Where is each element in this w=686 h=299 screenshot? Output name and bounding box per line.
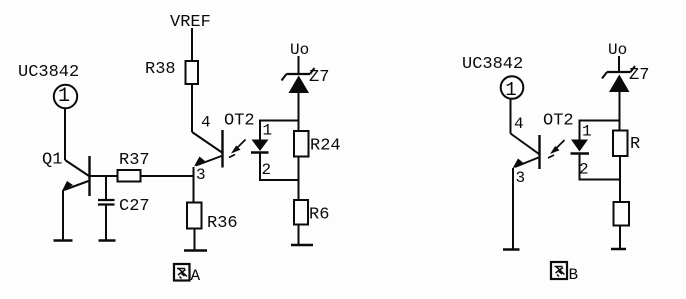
zener diode Z7 (figure B)	[602, 66, 635, 92]
svg-text:R: R	[630, 135, 640, 154]
optocoupler light arrow (figure A)	[229, 140, 246, 158]
svg-text:3: 3	[196, 166, 206, 184]
transistor Q1	[62, 156, 90, 196]
resistor R36	[187, 203, 202, 229]
ground (figure B emitter)	[503, 248, 520, 251]
svg-text:R24: R24	[310, 137, 341, 156]
wire Q1 emitter down	[62, 190, 64, 240]
svg-text:Z7: Z7	[629, 66, 649, 85]
wire LED branch top (pin1, figure A)	[260, 121, 299, 141]
optocoupler light arrow (figure B)	[548, 140, 565, 158]
svg-text:UC3842: UC3842	[462, 55, 523, 74]
wire pin1 to phototransistor (figure B)	[510, 99, 512, 134]
phototransistor of OT2 (figure A)	[192, 130, 223, 168]
svg-text:OT2: OT2	[543, 112, 574, 131]
svg-text:1: 1	[58, 85, 70, 108]
wire LED branch bottom (pin2, figure B)	[580, 155, 621, 180]
LED of OT2 (figure B)	[571, 140, 590, 154]
pin circle 1 (UC3842 pin, figure B)	[501, 76, 524, 101]
zener diode Z7 (figure A)	[282, 68, 315, 93]
wire zener to R (figure B)	[619, 92, 621, 131]
svg-text:3: 3	[516, 169, 526, 187]
svg-text:A: A	[191, 267, 201, 285]
svg-text:B: B	[569, 266, 579, 284]
wire emitter to ground (figure B)	[512, 168, 514, 249]
wire Uo to zener	[298, 56, 300, 74]
caption 图A	[174, 264, 201, 285]
svg-text:R37: R37	[119, 151, 150, 170]
svg-text:4: 4	[514, 115, 524, 133]
wire R24 to R6	[298, 157, 300, 201]
svg-text:1: 1	[582, 123, 592, 141]
wire R38 to phototransistor collector (pin 4)	[191, 84, 193, 132]
svg-text:C27: C27	[119, 197, 150, 216]
wire LED branch top (pin1, figure B)	[580, 121, 621, 141]
ground (figure B right)	[611, 248, 626, 251]
resistor R24	[294, 131, 309, 157]
wire VREF to R38	[191, 28, 193, 61]
svg-text:Q1: Q1	[42, 151, 62, 170]
wire lower resistor to ground (figure B)	[619, 226, 621, 249]
resistor R6	[294, 200, 308, 225]
svg-text:2: 2	[262, 161, 272, 179]
svg-text:1: 1	[505, 79, 516, 101]
wire R6 to ground	[298, 225, 300, 245]
ground (C27)	[99, 239, 116, 242]
svg-text:1: 1	[263, 122, 273, 140]
resistor R38	[186, 61, 199, 84]
svg-text:Uo: Uo	[608, 41, 627, 59]
wire pin1 to Q1 collector	[64, 108, 66, 160]
phototransistor of OT2 (figure B)	[511, 134, 540, 170]
ground (Q1 emitter)	[54, 239, 73, 242]
svg-text:R6: R6	[309, 206, 329, 225]
svg-text:R38: R38	[145, 60, 176, 79]
ground (R6)	[291, 244, 313, 247]
svg-text:OT2: OT2	[224, 112, 255, 131]
svg-text:UC3842: UC3842	[18, 63, 79, 82]
svg-text:R36: R36	[207, 214, 238, 233]
svg-text:Z7: Z7	[309, 68, 329, 87]
svg-text:4: 4	[201, 114, 211, 132]
resistor (unlabelled, figure B)	[614, 202, 630, 226]
wire node 3 to R36	[193, 167, 195, 203]
wire R36 to ground	[194, 229, 196, 251]
wire R37 to node 3	[141, 175, 194, 177]
wire Uo to zener (figure B)	[618, 56, 620, 72]
caption 图B	[551, 262, 578, 284]
wire Q1 base to R37	[91, 175, 118, 177]
svg-text:VREF: VREF	[170, 13, 211, 32]
wire R to lower resistor (figure B)	[619, 156, 621, 202]
svg-text:Uo: Uo	[290, 41, 309, 59]
LED of OT2 (figure A)	[251, 140, 269, 153]
wire LED branch bottom (pin2, figure A)	[260, 154, 299, 181]
resistor R (figure B)	[613, 131, 628, 157]
ground (R36)	[184, 249, 207, 252]
pin circle 1 (UC3842 pin, figure A)	[54, 85, 77, 108]
wire zener to R24	[298, 93, 300, 131]
resistor R37	[118, 170, 141, 182]
capacitor C27	[98, 176, 115, 240]
